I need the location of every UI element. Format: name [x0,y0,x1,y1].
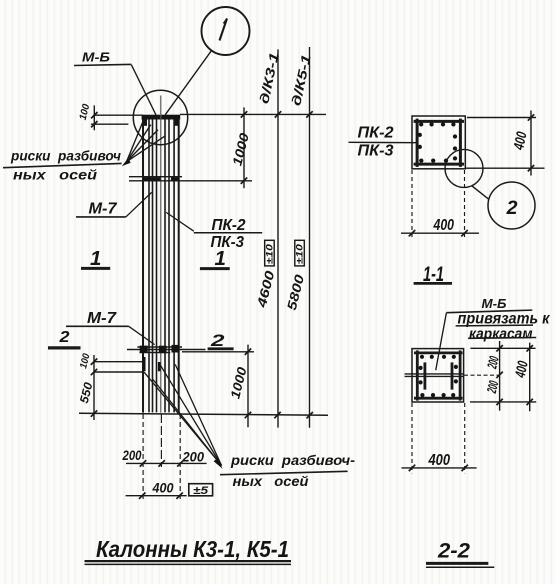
svg-text:М-Б: М-Б [482,296,507,311]
svg-text:1: 1 [90,247,101,270]
svg-text:400: 400 [428,452,451,469]
svg-text:5800: 5800 [284,272,307,311]
svg-text:400: 400 [152,480,174,495]
svg-text:2: 2 [58,329,69,346]
svg-text:±10: ±10 [295,244,305,264]
svg-text:200: 200 [484,379,502,395]
svg-text:ПК-3: ПК-3 [211,234,245,251]
svg-text:400: 400 [433,217,455,234]
svg-text:Калонны К3-1, К5-1: Калонны К3-1, К5-1 [96,536,289,562]
svg-text:4600: 4600 [254,268,278,310]
svg-text:М-7: М-7 [89,201,118,218]
svg-text:ПК-2: ПК-2 [358,125,394,142]
svg-text:2-2: 2-2 [437,539,470,563]
svg-text:риски разбивоч-: риски разбивоч- [230,453,356,468]
svg-text:2: 2 [210,331,226,350]
svg-text:400: 400 [511,130,531,152]
svg-text:100: 100 [78,103,93,122]
svg-text:1000: 1000 [227,365,250,401]
svg-text:400: 400 [513,360,532,380]
svg-text:ПК-3: ПК-3 [358,142,394,159]
svg-text:100: 100 [78,352,92,370]
svg-text:200: 200 [182,449,205,464]
svg-text:±10: ±10 [264,244,274,264]
svg-text:200: 200 [122,448,142,463]
svg-text:М-7: М-7 [87,310,117,327]
svg-text:±5: ±5 [193,485,209,497]
svg-text:каркасам: каркасам [469,326,533,343]
svg-text:ных осей: ных осей [233,474,310,489]
svg-text:ных осей: ных осей [13,168,98,183]
svg-text:М-Б: М-Б [82,50,110,65]
svg-text:ПК-2: ПК-2 [212,217,246,234]
svg-text:2: 2 [506,197,518,219]
svg-text:риски разбивоч: риски разбивоч [10,148,121,163]
svg-text:550: 550 [77,381,96,405]
svg-text:1000: 1000 [229,131,252,167]
